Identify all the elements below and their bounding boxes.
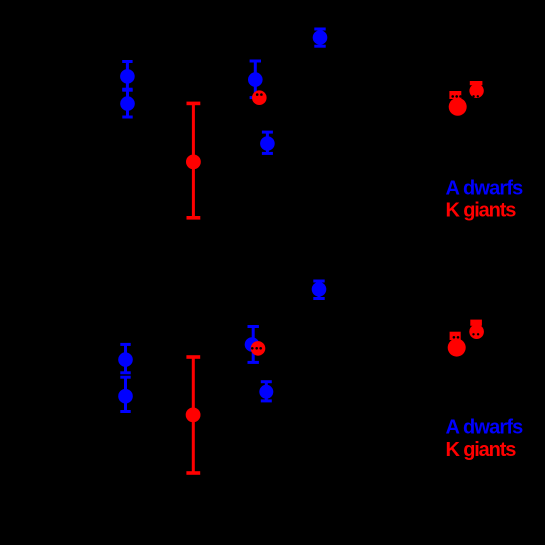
top panel: red marker (long errorbar) — [186, 155, 201, 170]
top panel: black dots on red marker — [256, 93, 259, 96]
top panel: blue marker 2 — [120, 96, 135, 111]
top panel: black dots on red blob — [451, 95, 454, 98]
bottom panel: blue marker 5 — [312, 282, 327, 297]
bottom panel: errorbar of blue point 3 — [248, 327, 259, 363]
top panel: errorbar of blue point 4 — [262, 132, 273, 153]
bottom panel: errorbar of blue point 4 — [261, 382, 272, 401]
bottom panel: red marker right-right — [469, 324, 484, 339]
bottom panel: black dots on red blob — [453, 336, 456, 339]
top panel: blue marker 1 — [120, 69, 135, 84]
bottom panel: errorbar of blue point 5 — [313, 281, 324, 299]
top panel: blue marker 5 — [313, 30, 328, 45]
svg-text:K giants: K giants — [446, 439, 517, 461]
top panel: blue marker 4 — [260, 136, 275, 151]
bottom panel: errorbar of blue point 2 — [120, 377, 130, 411]
bottom panel: errorbar of blue point 1 — [120, 344, 130, 372]
bottom panel: black dots on red marker — [251, 347, 254, 350]
svg-text:K giants: K giants — [446, 200, 517, 222]
top panel: errorbar of blue point 2 — [122, 90, 132, 117]
top panel: red cap of right-right red blob — [470, 81, 483, 85]
bottom panel: blue marker 2 — [118, 389, 133, 404]
top panel: errorbar of blue point 5 — [314, 29, 325, 46]
top panel: red marker overlapping blue 3 — [252, 90, 267, 105]
bottom panel: red cap + teeth of right-left red blob — [450, 332, 461, 340]
bottom panel: red marker overlapping blue 3 — [251, 341, 266, 356]
top panel: red marker right-right — [469, 84, 483, 98]
top panel: red marker right-left — [449, 98, 467, 116]
bottom panel: errorbar of red point (long) — [186, 357, 200, 473]
top panel: red cap + teeth of right-left red blob — [449, 91, 461, 99]
top panel: errorbar of red point (long) — [187, 103, 201, 217]
bottom panel: blue marker 1 — [118, 352, 133, 367]
svg-text:A dwarfs: A dwarfs — [446, 417, 524, 439]
bottom panel: red cap of right-right red blob — [470, 320, 482, 326]
top panel: blue marker 3 — [248, 72, 263, 87]
bottom panel: red marker (long errorbar) — [186, 408, 201, 423]
bottom panel: red marker right-left — [448, 339, 466, 357]
bottom panel: blue marker 3 — [245, 337, 260, 352]
bottom panel: black dots on red marker right-right — [472, 333, 474, 335]
bottom panel: blue marker 4 — [259, 385, 273, 399]
top panel: errorbar of blue point 1 — [122, 62, 132, 90]
svg-text:A dwarfs: A dwarfs — [446, 177, 524, 199]
top panel: black dots on red marker right-right — [472, 95, 474, 97]
top panel: errorbar of blue point 3 — [250, 61, 261, 98]
